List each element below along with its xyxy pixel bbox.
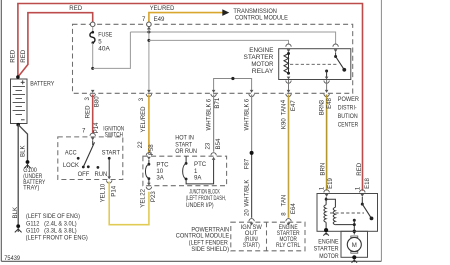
label BLK (G100 wire)	[20, 145, 27, 157]
motor M	[347, 236, 361, 253]
label JUNCTION BLOCK (LEFT FRONT DASH, UNDER I/P)	[186, 189, 226, 209]
connector PDC exit E47 (TAN)	[286, 90, 291, 97]
svg-text:P14: P14	[111, 185, 118, 196]
svg-text:LOCK: LOCK	[63, 162, 79, 169]
connector relay coil top	[286, 44, 291, 52]
svg-text:BRN: BRN	[319, 102, 326, 115]
connector PDC exit P58 feed (YEL/RED)	[146, 90, 151, 97]
svg-text:40A: 40A	[98, 46, 110, 53]
label G100 (UNDER BATTERY TRAY)	[23, 167, 45, 192]
svg-text:RUN: RUN	[95, 171, 108, 178]
relay coil winding	[284, 52, 290, 75]
label P58	[148, 144, 155, 155]
svg-text:B71: B71	[214, 97, 221, 108]
node splice on F87 wire	[250, 151, 254, 155]
svg-text:75439: 75439	[4, 255, 20, 262]
svg-text:YEL: YEL	[139, 196, 146, 208]
wire bus to relay coil (y40.4)	[149, 40, 289, 44]
wire START contact down	[108, 158, 110, 177]
label WHT/BLK (left)	[206, 103, 213, 130]
page bottom border	[1, 260, 381, 262]
label POWERTRAIN CONTROL MODULE (LEFT FENDER SIDE SHIELD)	[176, 227, 229, 253]
label E49	[154, 16, 165, 23]
label P14 (top)	[93, 122, 100, 133]
svg-text:RELAY: RELAY	[252, 68, 274, 75]
wire YEL ignition START to junction block P23	[109, 182, 149, 225]
ground G100	[24, 160, 31, 168]
junction block dashed box	[143, 156, 227, 186]
svg-text:22: 22	[140, 188, 147, 195]
label G112 G110 engine grounds	[26, 213, 88, 241]
starter switch contact to motor	[353, 219, 356, 235]
svg-text:START): START)	[243, 242, 260, 249]
label BRN (lower)	[320, 163, 327, 176]
connector P14 at ignition switch bottom	[107, 176, 112, 183]
connector relay switch top	[333, 44, 338, 52]
label 3 (red wire gauge)	[84, 97, 91, 101]
label 22 (P23 pin)	[140, 188, 147, 195]
label RED (top horizontal run)	[69, 5, 82, 12]
svg-text:CENTER: CENTER	[338, 122, 359, 129]
svg-text:ACC: ACC	[65, 150, 77, 157]
wire RED battery to starter B+ (top run)	[18, 4, 363, 191]
label BLK (engine ground wire)	[12, 207, 19, 219]
svg-text:YEL/RED: YEL/RED	[150, 5, 175, 12]
label E64	[290, 203, 297, 214]
svg-text:STARTER: STARTER	[244, 54, 275, 61]
label 23 (B54 pin)	[204, 142, 211, 149]
svg-text:B80: B80	[94, 96, 101, 107]
connector E19 at starter	[324, 190, 329, 197]
label B71	[214, 97, 221, 108]
label WHT/BLK (F87 lower)	[243, 180, 250, 207]
powertrain control module dashed box	[231, 222, 305, 251]
wire BLK battery to G100	[18, 125, 27, 161]
label IGN SW OUT (RUN/ START)	[241, 224, 262, 249]
svg-text:RED: RED	[20, 49, 27, 62]
svg-text:WHT/BLK: WHT/BLK	[243, 180, 250, 207]
connector eyelet at fuse feed (PDC top edge)	[90, 22, 95, 27]
connector arrow under E49	[147, 26, 151, 29]
wire E49 drop vertical	[148, 30, 150, 91]
svg-text:BLK: BLK	[12, 207, 19, 219]
label YEL (ignition)	[99, 190, 106, 202]
svg-text:22: 22	[137, 141, 144, 148]
label IGNITION SWITCH	[103, 125, 124, 138]
starter solenoid windings	[324, 197, 354, 228]
svg-text:MOTOR: MOTOR	[319, 253, 339, 260]
wire WHT/BLK F87 PDC to PCM	[251, 95, 253, 153]
connector B54 at junction block top	[211, 153, 216, 160]
ground G112/G110	[15, 224, 22, 232]
wire fuse junction L-path up to bus	[93, 32, 131, 68]
wire fuse output down to junction	[92, 43, 94, 69]
node bus junction at E49 drop	[147, 31, 150, 34]
wire YEL/RED to transmission control module	[149, 13, 223, 24]
node fuse output junction	[91, 67, 94, 70]
connector E64 at PCM	[286, 219, 291, 226]
engine starter motor relay box	[279, 49, 351, 80]
starter switch blade	[361, 197, 374, 220]
label RED (battery wire 1)	[9, 49, 16, 62]
label B80	[94, 96, 101, 107]
label 6 (left WHT/BLK gauge)	[206, 98, 213, 102]
label RED (battery wire 2)	[20, 49, 27, 62]
relay switch blade	[334, 52, 346, 71]
starter solenoid dashed link	[330, 212, 364, 214]
PTC 1 9A circuit breaker	[183, 156, 214, 184]
svg-text:M: M	[352, 242, 357, 249]
label RUN	[95, 171, 108, 178]
arrow to transmission control module	[222, 9, 229, 16]
wire BLK battery to G112/G110	[17, 125, 19, 225]
svg-text:ENGINE: ENGINE	[249, 47, 273, 54]
node splice on WHT/BLK bar	[231, 77, 234, 80]
wire RED PDC to ignition switch	[92, 95, 94, 134]
label 10 (YEL gauge)	[100, 183, 107, 190]
svg-text:3A: 3A	[156, 175, 164, 182]
svg-text:YEL: YEL	[99, 190, 106, 202]
svg-text:RED: RED	[84, 105, 91, 118]
label ENGINE STARTER MOTOR	[314, 239, 340, 260]
svg-text:E64: E64	[290, 203, 297, 214]
label POWER DISTRIBUTION CENTER	[338, 96, 360, 129]
label 20 (PCM pin)	[244, 209, 251, 216]
connector F87 at PCM	[249, 219, 254, 226]
svg-text:RED: RED	[356, 162, 363, 175]
label 6 (F87 gauge)	[243, 98, 250, 102]
label PTC 10 3A	[156, 161, 169, 181]
label P23	[150, 191, 157, 202]
relay actuation dashed link	[290, 63, 337, 65]
wire TAN K90 relay coil to PCM	[288, 95, 290, 218]
label 7 (E49 pin)	[142, 16, 146, 23]
connector PDC exit B80 (to ignition switch)	[90, 90, 95, 97]
svg-text:TAN: TAN	[280, 195, 287, 207]
svg-text:WHT/BLK: WHT/BLK	[243, 103, 250, 130]
svg-text:5: 5	[98, 39, 102, 46]
relay switch output contact	[325, 70, 328, 79]
label TAN (upper)	[280, 104, 287, 116]
label 22 (P58 pin)	[137, 141, 144, 148]
svg-text:F87: F87	[243, 158, 250, 169]
label LOCK	[63, 162, 79, 169]
label YEL/RED (vertical)	[140, 106, 147, 133]
svg-text:RED: RED	[69, 5, 82, 12]
svg-text:(LEFT FRONT OF ENG): (LEFT FRONT OF ENG)	[26, 235, 88, 242]
svg-text:SIDE SHIELD): SIDE SHIELD)	[191, 246, 229, 253]
label YEL/RED (top)	[150, 5, 175, 12]
label B54	[215, 138, 222, 149]
label START	[102, 150, 121, 157]
starter motor box	[341, 231, 368, 257]
label 1 (E18 pin)	[355, 186, 362, 190]
node junction at coil bus	[147, 39, 150, 42]
svg-text:BRN: BRN	[320, 163, 327, 176]
svg-text:K90: K90	[280, 118, 287, 129]
label F87	[243, 158, 250, 169]
label OFF	[78, 171, 90, 178]
svg-text:RLY CTRL: RLY CTRL	[276, 242, 301, 249]
svg-text:20: 20	[244, 209, 251, 216]
label FUSE 5 40A	[98, 31, 112, 52]
ignition switch dashed box	[58, 137, 123, 180]
svg-text:WHT/BLK: WHT/BLK	[206, 103, 213, 130]
svg-text:STARTER: STARTER	[314, 246, 340, 253]
svg-text:OR RUN: OR RUN	[175, 148, 197, 155]
svg-text:9A: 9A	[194, 174, 202, 181]
label 8 (PCM pin)	[280, 212, 287, 216]
wire RED battery to PDC fuse feed	[18, 13, 93, 77]
svg-text:E48: E48	[326, 97, 333, 108]
svg-text:E18: E18	[364, 177, 371, 188]
svg-text:B54: B54	[215, 138, 222, 149]
wire WHT/BLK PDC to junction block B54	[213, 95, 215, 152]
label E48	[326, 97, 333, 108]
label HOT IN START OR RUN	[175, 135, 197, 155]
label RED (starter feed)	[356, 162, 363, 175]
label 75439	[4, 255, 20, 262]
label TAN (lower)	[280, 195, 287, 207]
fuse 5 40A	[90, 27, 95, 44]
label RED (ignition feed)	[84, 105, 91, 118]
label BRN (upper)	[319, 102, 326, 115]
connector relay switch output at relay base	[324, 77, 329, 84]
wire bus to relay switch (y32)	[130, 32, 335, 44]
svg-text:RED: RED	[9, 49, 16, 62]
svg-text:23: 23	[204, 142, 211, 149]
label P14 (bottom)	[111, 185, 118, 196]
svg-text:10: 10	[100, 183, 107, 190]
svg-text:BUTION: BUTION	[338, 113, 358, 120]
label YEL (junction block side)	[139, 196, 146, 208]
label 1 (E19 pin)	[319, 186, 326, 190]
page right border	[380, 0, 382, 261]
svg-text:P14: P14	[93, 122, 100, 133]
label TRANSMISSION CONTROL MODULE	[233, 8, 288, 21]
connector P14 at ignition switch	[90, 133, 95, 140]
svg-text:E19: E19	[327, 177, 334, 188]
label 3 (YEL/RED gauge)	[138, 97, 145, 101]
label 3 (BRN gauge)	[318, 99, 325, 103]
label 4 (TAN gauge)	[280, 99, 287, 103]
wire WHT/BLK distribution bar (y78.5)	[214, 79, 252, 91]
connector E18 at starter	[360, 190, 365, 197]
page left border	[0, 0, 2, 261]
connector P58 at junction block top	[146, 153, 151, 160]
wire BRN relay switch to starter solenoid	[326, 95, 328, 191]
svg-text:BATTERY: BATTERY	[30, 80, 54, 87]
svg-text:SWITCH: SWITCH	[105, 132, 123, 139]
svg-text:TAN: TAN	[280, 104, 287, 116]
label ENGINE STARTER MOTOR RLY CTRL	[276, 224, 301, 249]
svg-text:BLK: BLK	[20, 145, 27, 157]
svg-text:TRAY): TRAY)	[23, 185, 39, 192]
svg-text:G112 (2.4L & 3.0L): G112 (2.4L & 3.0L)	[26, 221, 77, 228]
battery	[11, 75, 28, 126]
wire relay coil output to PDC edge	[288, 80, 290, 90]
label ACC	[65, 150, 77, 157]
svg-text:E49: E49	[154, 16, 165, 23]
connector P23 at junction block bottom	[146, 183, 151, 190]
ground solenoid to starter case	[323, 228, 329, 236]
label E18	[364, 177, 371, 188]
label ENGINE STARTER MOTOR RELAY	[244, 47, 275, 75]
label PTC 1 9A	[194, 161, 207, 181]
svg-text:START: START	[102, 150, 121, 157]
svg-text:YEL/RED: YEL/RED	[140, 106, 147, 133]
PCM divider dashed	[266, 222, 268, 251]
label K90	[280, 118, 287, 129]
svg-text:MOTOR: MOTOR	[251, 61, 274, 68]
ignition switch blade and positions	[77, 140, 111, 168]
svg-text:DISTRI-: DISTRI-	[338, 105, 357, 112]
label WHT/BLK (F87)	[243, 103, 250, 130]
connector PDC exit B71	[211, 90, 216, 97]
label 7 (P14 pin)	[82, 128, 86, 135]
connector 7 E49 eyelet (PDC top edge)	[147, 22, 152, 27]
svg-text:OFF: OFF	[78, 171, 90, 178]
PTC 10 3A circuit breaker	[145, 160, 150, 183]
svg-text:UNDER I/P): UNDER I/P)	[186, 202, 214, 209]
svg-text:P23: P23	[150, 191, 157, 202]
label E47	[290, 100, 297, 111]
ground starter motor	[352, 255, 358, 263]
connector PDC exit F87	[249, 90, 254, 97]
connector relay coil bottom at relay base	[286, 77, 291, 84]
wire relay switch output to PDC edge	[326, 80, 328, 90]
svg-text:CONTROL MODULE: CONTROL MODULE	[235, 14, 288, 21]
engine starter motor box	[317, 194, 378, 232]
svg-text:E47: E47	[290, 100, 297, 111]
svg-text:(LEFT SIDE OF ENG): (LEFT SIDE OF ENG)	[26, 213, 80, 220]
svg-text:ENGINE: ENGINE	[318, 239, 338, 246]
svg-text:POWER: POWER	[338, 96, 360, 103]
wire YEL/RED PDC to junction block	[148, 95, 150, 153]
svg-text:FUSE: FUSE	[98, 31, 112, 38]
connector PDC exit E48 (BRN)	[324, 90, 329, 97]
power distribution center dashed box	[73, 24, 353, 93]
label E19	[327, 177, 334, 188]
label BATTERY	[30, 80, 54, 87]
